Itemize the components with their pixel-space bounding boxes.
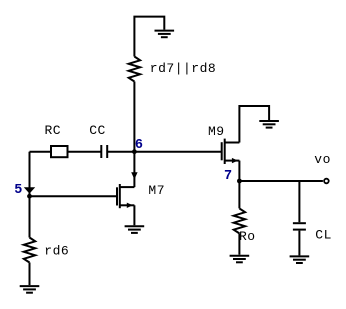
svg-text:RC: RC bbox=[45, 123, 62, 138]
svg-text:CC: CC bbox=[89, 123, 106, 138]
svg-text:M7: M7 bbox=[148, 183, 165, 198]
svg-text:7: 7 bbox=[224, 169, 233, 184]
svg-text:M9: M9 bbox=[208, 124, 225, 139]
svg-text:5: 5 bbox=[14, 183, 23, 198]
svg-text:vo: vo bbox=[314, 152, 331, 167]
svg-text:CL: CL bbox=[315, 228, 332, 243]
svg-text:rd6: rd6 bbox=[44, 244, 69, 259]
svg-text:Ro: Ro bbox=[239, 229, 256, 244]
svg-text:6: 6 bbox=[135, 138, 144, 153]
svg-text:rd7||rd8: rd7||rd8 bbox=[150, 61, 216, 76]
